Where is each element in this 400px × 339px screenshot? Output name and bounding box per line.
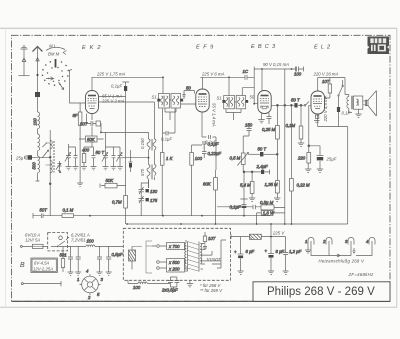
svg-text:E F 9: E F 9	[196, 45, 214, 51]
capacitor 25u electrolytic	[15, 155, 50, 161]
resistor 501	[60, 246, 68, 272]
resistor 0,25M	[262, 104, 279, 146]
fixed cap 3	[111, 147, 117, 170]
padder trimmer 130	[139, 187, 158, 194]
svg-text:0,5µ M: 0,5µ M	[260, 200, 274, 205]
svg-text:8 µF: 8 µF	[246, 249, 255, 254]
EF9 cathode parts	[163, 109, 217, 171]
wire EK2 anode to top rail	[92, 77, 163, 90]
svg-text:Philips 268 V - 269 V: Philips 268 V - 269 V	[267, 286, 375, 298]
svg-text:55 V 1,4 mA: 55 V 1,4 mA	[212, 103, 217, 127]
decoupling cap on rail	[243, 69, 249, 80]
svg-text:2x0,5µF: 2x0,5µF	[161, 288, 178, 293]
svg-text:225 V 2 mA: 225 V 2 mA	[101, 99, 125, 104]
coil L1 100	[33, 97, 40, 135]
svg-text:501: 501	[60, 253, 68, 258]
svg-text:50K: 50K	[106, 178, 115, 183]
Philips service logo box	[368, 37, 390, 55]
switch wiper arrows on coils	[42, 150, 49, 158]
fixed cap 1	[73, 147, 79, 170]
wire grid top-cap	[70, 71, 93, 121]
cap 0,22uF	[202, 147, 221, 159]
svg-text:80K: 80K	[203, 182, 212, 187]
EL2 base pin box	[314, 115, 320, 122]
gang top wires	[69, 132, 121, 147]
resistor 400 vertical	[81, 147, 90, 170]
tuning gang cap 1 variable	[65, 147, 72, 170]
svg-text:12V/ 5A: 12V/ 5A	[25, 238, 40, 243]
resistor 1,35M	[265, 146, 281, 201]
svg-text:10T: 10T	[208, 236, 216, 241]
svg-text:0,22 M: 0,22 M	[297, 183, 311, 188]
page scan edge bottom	[0, 306, 397, 308]
svg-text:S1: S1	[152, 95, 158, 100]
svg-text:100: 100	[195, 156, 203, 161]
tone cap 0,1uF	[337, 97, 351, 127]
tube EL2 envelope	[311, 91, 325, 114]
svg-text:0,150: 0,150	[140, 138, 145, 149]
caps 2x0,5uF	[161, 277, 179, 293]
svg-text:25µF: 25µF	[326, 157, 337, 162]
left stub w marker	[58, 161, 62, 173]
svg-text:0,5 M: 0,5 M	[230, 156, 241, 161]
volume pot 0,5M	[230, 136, 261, 172]
svg-text:B: B	[20, 262, 25, 269]
ground bus terminal left	[32, 213, 34, 219]
grid cap 0,1uF	[111, 82, 129, 196]
svg-text:0,5µF: 0,5µF	[112, 252, 123, 257]
svg-text:0,7M: 0,7M	[112, 200, 122, 205]
capacitor 50T series	[33, 208, 51, 219]
mains feed wire	[22, 245, 123, 247]
secondary coupling coil assembly	[46, 130, 61, 190]
resistor 5,4M	[240, 171, 255, 201]
wire EBC3 anode up	[261, 69, 263, 91]
svg-text:10T: 10T	[322, 79, 330, 84]
rating box 6V-4,5A 12V-2,25A	[31, 258, 58, 273]
tuning gang cap 3 variable	[116, 147, 123, 170]
antenna	[33, 47, 43, 93]
secondary winding bumps	[201, 244, 206, 270]
rail 90V	[254, 68, 296, 70]
svg-text:220 V 26 mA: 220 V 26 mA	[313, 72, 339, 77]
fuse	[32, 244, 43, 248]
cap 100 on 90V rail end	[294, 67, 304, 77]
svg-text:100: 100	[294, 72, 302, 77]
resistor 1K	[160, 153, 173, 216]
resistor at EK2 left	[73, 103, 84, 186]
secondary cap	[203, 245, 207, 251]
primary balance coil	[129, 246, 136, 269]
rectifier AZ1 socket circle	[77, 269, 104, 301]
resistor 0,1M	[51, 208, 90, 218]
coil L2	[38, 134, 40, 156]
svg-text:100: 100	[87, 239, 95, 244]
bypass cap 25uF	[317, 146, 337, 169]
title block box	[253, 282, 390, 302]
svg-text:225 V 6 mA: 225 V 6 mA	[201, 72, 225, 77]
svg-text:0,1µF: 0,1µF	[161, 137, 172, 142]
bottom filament coil 100	[128, 280, 170, 290]
cap 1,2uF	[283, 249, 302, 274]
svg-text:1,35 M: 1,35 M	[265, 182, 279, 187]
svg-text:x 200: x 200	[168, 267, 180, 272]
svg-text:ZF=468kHz: ZF=468kHz	[348, 272, 375, 277]
svg-text:225 V 1,75 mA: 225 V 1,75 mA	[96, 72, 126, 77]
anode rail EL2	[318, 78, 345, 95]
tone switch	[338, 80, 344, 96]
cap 0,1uF	[202, 142, 219, 150]
svg-text:50: 50	[186, 86, 191, 91]
coupling 50T below EK2	[80, 114, 101, 133]
wire gang to osc	[123, 157, 149, 159]
heater link wires	[305, 245, 372, 258]
B+ feed vertical	[270, 224, 272, 254]
svg-text:50 T: 50 T	[258, 147, 267, 152]
cap 8uF no1	[234, 249, 255, 274]
mains switch dashed box	[48, 233, 68, 251]
resistor 50K mid	[100, 178, 126, 188]
diode load: cap 150	[245, 123, 253, 137]
svg-text:E L 2: E L 2	[314, 45, 331, 51]
svg-text:0,1µF: 0,1µF	[208, 142, 219, 147]
osc coil pair lower	[147, 150, 156, 188]
svg-text:570: 570	[140, 168, 145, 176]
wire EF9 anode	[200, 67, 254, 104]
svg-text:100: 100	[33, 118, 38, 126]
EL2 cathode wires	[318, 98, 348, 224]
secondary resistor 100	[203, 232, 215, 244]
cap pair at 70.5	[68, 246, 82, 275]
svg-text:8F: 8F	[73, 113, 78, 118]
wires IF2	[226, 77, 258, 120]
page scan edge right	[396, 28, 398, 307]
svg-text:2,4µF: 2,4µF	[256, 164, 268, 169]
svg-text:0,25 M: 0,25 M	[262, 127, 276, 132]
heater choke 100	[86, 239, 95, 247]
wire EK2 osc grid line	[101, 132, 149, 139]
tuning gang cap 2 variable	[102, 147, 109, 170]
tube EK2 envelope	[86, 91, 99, 114]
svg-text:1 K: 1 K	[166, 156, 174, 161]
transformer dashed enclosure	[123, 228, 230, 280]
svg-text:0,22µF: 0,22µF	[208, 151, 222, 156]
IF1 top trimmer	[183, 86, 195, 100]
fixed cap 2 50T	[91, 147, 105, 170]
page scan edge top	[0, 27, 397, 29]
grid resistor 0,1M	[286, 105, 305, 146]
svg-text:50: 50	[250, 95, 255, 100]
junction dots	[89, 215, 292, 225]
resistor 0,22M	[290, 179, 311, 225]
dimension line	[21, 281, 61, 286]
svg-text:E K 2: E K 2	[82, 45, 102, 51]
svg-text:BM M: BM M	[48, 52, 60, 57]
svg-text:0,1µF: 0,1µF	[111, 84, 122, 89]
svg-text:0,1 M: 0,1 M	[63, 208, 74, 213]
border frame dash-dot	[12, 35, 391, 301]
primary tap box x700	[152, 243, 185, 250]
coil L3 500	[32, 156, 40, 181]
svg-text:8 µF: 8 µF	[276, 249, 285, 254]
cap 50T series	[258, 147, 279, 157]
cap pair at 99.5	[97, 246, 123, 275]
right stub cap dark	[129, 150, 133, 172]
svg-text:50K: 50K	[87, 137, 96, 142]
transformer core	[188, 242, 200, 272]
resistor 80K	[203, 170, 217, 224]
resistor 100	[190, 145, 203, 216]
output transformer	[345, 95, 353, 113]
svg-text:** für 269 V: ** für 269 V	[200, 288, 223, 293]
secondary wires to right	[205, 240, 226, 268]
bus wire 1	[90, 215, 270, 217]
EBC3 cathode ground + cap	[258, 113, 271, 124]
svg-text:S1: S1	[217, 96, 223, 101]
resistor 0,7M	[112, 196, 128, 225]
svg-text:150: 150	[245, 123, 253, 128]
primary tap box x500/x200	[160, 259, 185, 273]
svg-text:50T: 50T	[40, 208, 48, 213]
svg-text:5,4 M: 5,4 M	[240, 183, 251, 188]
svg-text:0,1M: 0,1M	[286, 123, 296, 128]
cap 8uF no2	[265, 249, 285, 275]
svg-text:1C: 1C	[243, 69, 249, 74]
band switch rotary	[42, 59, 72, 90]
svg-text:E B C 3: E B C 3	[251, 44, 276, 50]
audio grid line to EL2	[271, 98, 311, 179]
earth electrode symbol	[19, 46, 30, 76]
svg-text:100: 100	[133, 285, 141, 290]
speaker	[353, 91, 376, 118]
svg-text:500: 500	[32, 162, 37, 170]
svg-text:50 T: 50 T	[291, 98, 300, 103]
ground cap 0,1uF	[230, 171, 248, 216]
B+ wire from rectifier	[231, 234, 286, 254]
svg-text:x 500: x 500	[168, 260, 180, 265]
svg-text:1,2 µF: 1,2 µF	[289, 249, 302, 254]
coupling wire to gang	[49, 190, 51, 216]
ground below transformer	[187, 280, 193, 287]
svg-text:Heizanschlußg 268 V: Heizanschlußg 268 V	[319, 259, 365, 264]
tube EBC3 envelope	[258, 91, 271, 114]
svg-text:130: 130	[150, 189, 158, 194]
wires IF1	[163, 77, 196, 120]
cathode resistor 220	[297, 153, 311, 170]
svg-text:25µ: 25µ	[15, 156, 24, 161]
heater pin symbols row	[305, 238, 375, 245]
screen resistor 10T	[322, 78, 332, 99]
svg-text:12V-2,25A: 12V-2,25A	[33, 267, 53, 272]
osc coil pair upper	[147, 139, 156, 151]
grounds for 220/25uF	[305, 105, 323, 172]
box 1,8W	[257, 69, 285, 224]
cap 2,4uF series	[256, 164, 270, 174]
svg-text:175: 175	[150, 198, 158, 203]
filter choke	[249, 234, 261, 239]
svg-text:225 V: 225 V	[272, 231, 285, 236]
tube EF9 envelope	[196, 89, 209, 112]
svg-text:50 T: 50 T	[96, 150, 105, 155]
primary winding bumps	[185, 240, 187, 272]
svg-text:90 V 0,15 mA: 90 V 0,15 mA	[263, 62, 289, 67]
svg-text:220 V 4,5 mA: 220 V 4,5 mA	[323, 95, 328, 122]
svg-text:x 700: x 700	[168, 244, 180, 249]
svg-text:220: 220	[297, 156, 306, 161]
svg-text:6V-4,5A: 6V-4,5A	[34, 261, 50, 266]
NTC resistor 0,54M	[217, 200, 274, 210]
bus wire 2	[127, 223, 348, 225]
small knobs left of taps	[132, 241, 159, 273]
svg-text:400: 400	[82, 148, 90, 153]
resistor 50K box	[79, 127, 104, 143]
antenna coupling block	[35, 92, 40, 97]
padder trimmer 175	[139, 180, 158, 216]
wire EK2 osc anode line	[99, 102, 155, 139]
